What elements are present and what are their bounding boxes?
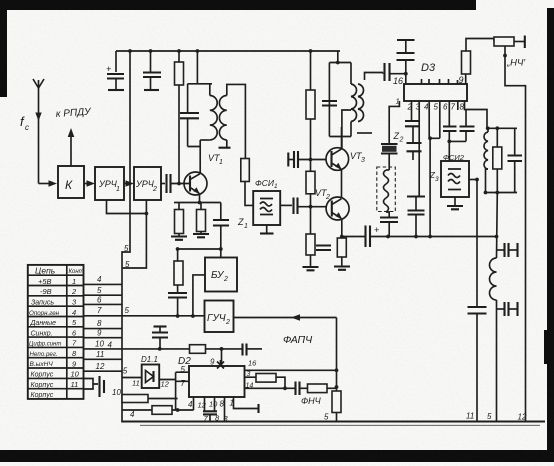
wire URCH1 to URCH2 — [124, 180, 134, 186]
junction bus-c2 — [149, 49, 153, 53]
IC D3 — [404, 62, 467, 101]
top supply bus — [116, 50, 340, 52]
resistor R12 — [493, 128, 502, 192]
wire FSI2 out — [469, 178, 479, 182]
D2 bottom pins — [194, 397, 259, 422]
resistor R3 emitter — [197, 203, 206, 234]
capacitor C23 above pin16 — [397, 40, 415, 74]
wire row6 — [84, 337, 123, 339]
ground R2 — [171, 237, 187, 240]
inductor L4 — [484, 128, 488, 192]
capacitor C21 pins 12-10 — [203, 411, 217, 421]
crystal mark pin9 — [217, 360, 224, 369]
D2 pin3 resistor R17 — [245, 374, 286, 389]
switch K — [58, 166, 84, 198]
resistor R13 — [332, 387, 341, 422]
wire tank2 coil tap to VT3 collector — [342, 110, 351, 148]
resistor R1 bias — [175, 51, 184, 185]
resistor R11 output — [494, 36, 525, 49]
osc GUCH2 — [205, 301, 234, 333]
capacitor C8 between grounds — [316, 246, 331, 251]
capacitor C18 lower — [497, 302, 518, 316]
wire row7 to D2 — [84, 348, 190, 350]
unused pin ticks D3 top — [422, 79, 458, 84]
capacitor C10 electrolytic — [366, 225, 380, 247]
connector table — [28, 265, 84, 399]
junction y236 a — [386, 235, 390, 239]
pin2 capacitor C24 — [405, 101, 422, 160]
capacitor C19 series — [243, 344, 263, 356]
wire row9 — [84, 370, 123, 372]
junction y236 b — [414, 235, 418, 239]
filter FSI1 — [253, 178, 280, 225]
tank L2-C9 — [322, 51, 364, 137]
amp U-RCH2 — [134, 167, 161, 200]
wire GUCH2 to FAPCH with arrow — [234, 314, 337, 320]
resistor R9 VT2 emitter — [337, 235, 346, 266]
wire bus branch x130 down — [122, 51, 130, 422]
wire row2 — [84, 294, 123, 296]
capacitor C-in to VT1 base — [161, 174, 190, 193]
wire line 5 with coil L5 — [490, 193, 498, 422]
junction y236 d — [495, 235, 499, 239]
resistor R5 — [241, 159, 253, 206]
wire 4 resistor R16 — [122, 406, 194, 419]
wire 10 resistor R15 — [112, 388, 178, 403]
filter FNCH — [300, 384, 337, 393]
pin8 capacitor C15 — [449, 101, 487, 141]
wire NCH output — [503, 46, 525, 422]
filter FSI2 — [441, 153, 469, 197]
wire URCH feedback — [107, 200, 149, 268]
wire to BU2 top — [220, 249, 222, 258]
wire coil tap to pin16 — [365, 63, 408, 81]
IC D2 — [178, 356, 245, 397]
wire T1 to VT1 collector — [199, 140, 201, 150]
wire K to URCH1 — [84, 180, 95, 186]
transformer T1 primary tank — [180, 51, 217, 147]
capacitor C2 — [143, 51, 161, 90]
D3 pin numbers — [396, 97, 465, 112]
junction bus-c1 — [128, 49, 132, 53]
junction y236 c — [428, 235, 432, 239]
wire antenna to K with arrow — [39, 180, 58, 186]
resistor R7 — [306, 160, 315, 207]
D2 pin labels bottom — [188, 399, 234, 424]
transistor VT3 — [326, 127, 349, 197]
crystal Z2 body — [381, 144, 398, 154]
tank right rails — [484, 126, 517, 194]
wire FAPCH bottom — [245, 369, 337, 371]
capacitor C20 — [152, 327, 168, 349]
ground FSI2 — [447, 197, 463, 209]
capacitor C6 to VT2 base — [294, 198, 327, 215]
capacitor C4 emitter chain — [213, 203, 229, 251]
wire VT2 emitter bus y236 — [342, 236, 497, 238]
pin6 capacitor C14 — [443, 101, 457, 161]
capacitor C5 — [168, 293, 187, 318]
pin1 wire to Z2 — [389, 101, 399, 144]
transistor VT1 — [184, 150, 207, 203]
resistor R4 — [174, 249, 183, 293]
pin 9 resistor R10 — [462, 39, 495, 85]
transformer T1 secondary — [219, 84, 246, 158]
ground R9 — [334, 267, 350, 270]
wire arrow to RPDU — [68, 128, 75, 166]
transistor VT2 — [326, 197, 349, 237]
pin 16 stub D3 — [405, 74, 407, 84]
resistor R8 — [306, 207, 315, 267]
bottom ground bus — [121, 420, 545, 422]
wire line 11 — [468, 180, 487, 422]
pin3 wire cap C13 — [407, 101, 425, 237]
wire row7 resistor R14 — [158, 345, 242, 366]
junction bus-tank1 — [196, 49, 200, 53]
capacitor C7 to VT3 base — [288, 151, 326, 168]
amp BU2 — [205, 258, 237, 292]
wire FSI1 out — [280, 204, 292, 206]
capacitor C17 upper — [497, 243, 518, 257]
core bar T2 — [357, 132, 372, 134]
pins 4-5 wires down — [428, 101, 440, 237]
wire VT1 emitter — [174, 201, 221, 205]
wire row1 — [84, 283, 123, 285]
label f_c — [20, 114, 29, 132]
wire row5 — [84, 328, 123, 330]
junction bus-r1 — [177, 49, 181, 53]
wire y249 — [176, 247, 221, 251]
wire pin14 — [245, 386, 295, 390]
capacitor C22 series — [296, 382, 300, 396]
capacitor C1 electrolytic — [106, 51, 124, 90]
wire row8 — [84, 358, 123, 360]
optocoupler D1.1 — [141, 355, 159, 388]
wire BU2 left — [191, 275, 205, 318]
junction VT2 base — [309, 205, 313, 209]
resistor R6 chain top — [306, 49, 315, 159]
ground FSI1 — [260, 225, 274, 234]
wire row3 — [84, 303, 123, 305]
chassis link rows 10-11 — [84, 376, 105, 397]
wire row4 reference to GUCH2 — [84, 315, 205, 317]
capacitor C12 bottom of L3 — [380, 218, 398, 237]
ground R8 — [303, 267, 319, 270]
amp U-RCH1 — [95, 167, 124, 200]
antenna WA1 — [33, 79, 44, 184]
ground R3 — [193, 234, 209, 237]
pin7 stub — [457, 101, 459, 110]
shielded coil L3 dashed screen — [377, 154, 396, 218]
capacitor C16 — [508, 128, 523, 192]
wire FAPCH right side — [335, 318, 339, 389]
wire D1.1 output — [159, 372, 189, 410]
resistor R2 emitter — [175, 203, 184, 237]
wire D1.1 input — [122, 377, 142, 379]
